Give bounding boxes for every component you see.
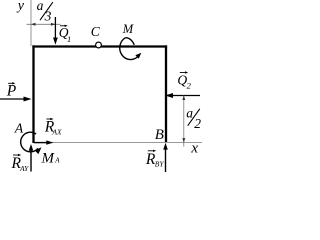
svg-text:A: A: [54, 157, 60, 165]
dimension a/2: [182, 96, 185, 147]
svg-text:2: 2: [194, 116, 201, 131]
label RBY vector: [145, 150, 164, 169]
reaction RBY: [163, 143, 168, 172]
svg-text:C: C: [91, 24, 101, 39]
svg-text:2: 2: [187, 81, 192, 91]
svg-text:1: 1: [67, 34, 71, 44]
frame right beam: [165, 45, 167, 142]
label RAY vector: [11, 154, 30, 173]
svg-text:M: M: [122, 22, 134, 36]
label MA: [41, 150, 61, 166]
force P: [0, 97, 32, 102]
moment M: [120, 22, 142, 60]
dimension a/3: [27, 23, 61, 26]
svg-text:y: y: [16, 0, 25, 14]
frame left beam: [32, 45, 34, 143]
svg-text:x: x: [190, 140, 198, 156]
svg-text:B: B: [155, 127, 164, 143]
label Q2 vector: [177, 71, 191, 90]
svg-text:BY: BY: [155, 160, 165, 169]
reaction RAY: [29, 144, 34, 172]
svg-text:A: A: [14, 121, 24, 136]
svg-text:a: a: [37, 0, 44, 13]
svg-text:AX: AX: [51, 127, 62, 136]
label a/3: [37, 0, 53, 23]
label Q1 vector: [59, 25, 71, 44]
force Q1: [53, 17, 58, 45]
svg-text:M: M: [41, 150, 56, 166]
moment MA arc: [21, 132, 42, 154]
y-axis: [30, 0, 32, 46]
reaction RAX: [34, 140, 54, 144]
x-axis: [34, 142, 202, 144]
label RAX vector: [44, 118, 62, 137]
svg-text:P: P: [6, 83, 17, 100]
force Q2: [165, 93, 200, 98]
svg-text:a: a: [186, 105, 193, 120]
node C: [91, 24, 102, 48]
svg-text:AY: AY: [19, 164, 29, 173]
frame top beam: [32, 45, 167, 47]
label a/2: [186, 105, 201, 131]
svg-text:3: 3: [44, 8, 52, 23]
label P vector: [6, 82, 17, 100]
